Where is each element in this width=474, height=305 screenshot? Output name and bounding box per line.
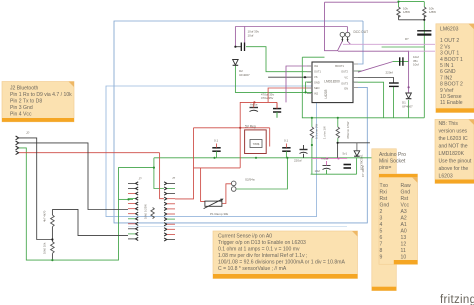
svg-text:1.08 mv per div for Internal R: 1.08 mv per div for Internal Ref of 1.1v…: [218, 253, 307, 259]
svg-text:Pin 3 Gnd: Pin 3 Gnd: [10, 105, 33, 111]
svg-text:220nf: 220nf: [386, 71, 394, 75]
svg-text:SEN: SEN: [314, 86, 319, 90]
svg-text:P1 Ramp 30k: P1 Ramp 30k: [210, 212, 229, 216]
svg-text:VC: VC: [344, 76, 348, 80]
svg-text:LMD18200: LMD18200: [324, 80, 340, 84]
svg-text:10uf: 10uf: [413, 63, 419, 67]
svg-text:8 BOOT 2: 8 BOOT 2: [440, 82, 463, 88]
svg-text:6: 6: [380, 235, 383, 241]
svg-text:2 Vs: 2 Vs: [440, 44, 451, 50]
svg-text:Pin 2 Tx to D8: Pin 2 Tx to D8: [10, 98, 42, 104]
svg-text:470ohm 0.5W: 470ohm 0.5W: [346, 121, 350, 139]
svg-text:4: 4: [380, 222, 383, 228]
svg-text:UF4007: UF4007: [402, 104, 413, 108]
svg-text:GND: GND: [314, 81, 320, 85]
svg-text:S2/54a: S2/54a: [245, 178, 255, 182]
svg-text:100/1.08 = 92.6 divisions per: 100/1.08 = 92.6 divisions per 1000mA or …: [218, 259, 345, 265]
svg-text:2: 2: [380, 209, 383, 215]
svg-text:C = 10.8 * sensorValue ; // m: C = 10.8 * sensorValue ; // mA: [218, 266, 287, 272]
svg-text:L6203: L6203: [324, 89, 328, 98]
svg-text:7 IN2: 7 IN2: [440, 75, 452, 81]
svg-text:Ardue: Ardue: [250, 103, 258, 107]
svg-text:BOOT1: BOOT1: [335, 64, 344, 68]
svg-text:1 ohm 1W: 1 ohm 1W: [323, 126, 327, 139]
svg-text:IN1: IN1: [314, 64, 319, 68]
svg-text:J?: J?: [139, 177, 143, 181]
svg-text:Pin 4 Vcc: Pin 4 Vcc: [10, 111, 32, 117]
svg-text:J2 Bluetooth: J2 Bluetooth: [10, 85, 38, 91]
svg-text:780$: 780$: [253, 142, 260, 146]
svg-text:10uf: 10uf: [248, 34, 254, 38]
svg-text:10uf: 10uf: [315, 169, 321, 173]
svg-text:VS: VS: [314, 75, 318, 79]
svg-text:LM6203: LM6203: [440, 27, 459, 33]
svg-text:0.1 ohm at 1 amps = 0.1 v = 10: 0.1 ohm at 1 amps = 0.1 v = 100 mv: [218, 246, 300, 252]
svg-text:10: 10: [401, 254, 407, 260]
svg-text:0.1 ohm 2W: 0.1 ohm 2W: [315, 124, 319, 139]
svg-text:Vcc: Vcc: [401, 202, 410, 208]
svg-text:10uf 35v: 10uf 35v: [248, 30, 260, 34]
svg-text:the L6203 IC: the L6203 IC: [439, 136, 468, 142]
svg-text:5: 5: [380, 228, 383, 234]
svg-text:5V Reg: 5V Reg: [245, 125, 256, 129]
svg-text:9: 9: [380, 254, 383, 260]
svg-text:A1: A1: [401, 222, 407, 228]
svg-text:OUT2: OUT2: [341, 70, 348, 74]
svg-text:Ardue: Ardue: [321, 157, 329, 161]
svg-text:IN2: IN2: [314, 92, 319, 96]
svg-text:1/8W: 1/8W: [429, 10, 436, 14]
svg-text:Use the pinout: Use the pinout: [439, 158, 472, 164]
svg-text:1 OUT 2: 1 OUT 2: [440, 38, 459, 44]
svg-text:and NOT the: and NOT the: [439, 143, 468, 149]
svg-text:Rst: Rst: [401, 196, 409, 202]
svg-text:0.1: 0.1: [284, 139, 289, 143]
svg-text:3 OUT 1: 3 OUT 1: [440, 51, 459, 57]
svg-text:above for the: above for the: [439, 166, 469, 172]
svg-text:Pin 1 Rx to D9 via 4.7 / 10k: Pin 1 Rx to D9 via 4.7 / 10k: [10, 92, 72, 98]
svg-text:Gnd: Gnd: [401, 189, 411, 195]
svg-text:11: 11: [401, 248, 406, 254]
svg-text:J?: J?: [172, 176, 176, 180]
svg-text:Mini Socket: Mini Socket: [379, 158, 406, 164]
svg-text:fritzing: fritzing: [440, 294, 474, 305]
svg-text:10k0 10k: 10k0 10k: [43, 242, 47, 254]
svg-text:DCC OUT: DCC OUT: [354, 30, 369, 34]
svg-text:EN: EN: [344, 86, 348, 90]
svg-text:Gnd: Gnd: [380, 202, 390, 208]
svg-text:version uses: version uses: [439, 128, 468, 134]
svg-text:Rxi: Rxi: [380, 189, 387, 195]
svg-text:OUT1: OUT1: [314, 70, 321, 74]
svg-text:Trigger o/p on D13 to Enable o: Trigger o/p on D13 to Enable on L6203: [218, 240, 306, 246]
svg-text:UF4007: UF4007: [239, 73, 250, 77]
svg-text:pins=: pins=: [379, 165, 391, 171]
svg-text:7: 7: [380, 241, 383, 247]
svg-text:C7 100nf: C7 100nf: [361, 165, 365, 177]
svg-text:8: 8: [380, 248, 383, 254]
svg-text:9 Vref: 9 Vref: [440, 88, 454, 94]
svg-text:220uf: 220uf: [294, 159, 302, 163]
svg-text:5 IN 1: 5 IN 1: [440, 63, 454, 69]
svg-text:6 GND: 6 GND: [440, 69, 456, 75]
svg-text:13: 13: [401, 235, 407, 241]
svg-text:Txo: Txo: [380, 183, 389, 189]
svg-text:A3: A3: [401, 209, 407, 215]
svg-text:11 Enable: 11 Enable: [440, 100, 463, 106]
svg-text:4k7 4k70: 4k7 4k70: [43, 210, 47, 222]
svg-text:NB: This: NB: This: [439, 121, 459, 127]
svg-text:470u 35v: 470u 35v: [261, 96, 274, 100]
svg-text:R?: R?: [405, 37, 409, 41]
svg-text:10 Sense: 10 Sense: [440, 94, 462, 100]
svg-text:L6203: L6203: [439, 173, 453, 179]
svg-text:Rst: Rst: [380, 196, 388, 202]
svg-text:OUT3: OUT3: [341, 82, 348, 86]
svg-text:A2: A2: [401, 215, 407, 221]
svg-text:10k0 0.25W: 10k0 0.25W: [144, 204, 148, 219]
svg-text:3: 3: [380, 215, 383, 221]
svg-text:4 BOOT 1: 4 BOOT 1: [440, 57, 463, 63]
svg-text:Raw: Raw: [401, 183, 412, 189]
svg-text:Current Sense i/p on A0: Current Sense i/p on A0: [218, 233, 272, 239]
svg-text:1/8W: 1/8W: [403, 10, 410, 14]
svg-text:LMD1820K: LMD1820K: [439, 151, 465, 157]
svg-text:5v1: 5v1: [342, 152, 347, 156]
svg-text:0.1: 0.1: [214, 139, 219, 143]
svg-text:A0: A0: [401, 228, 407, 234]
svg-text:J?: J?: [26, 131, 30, 135]
svg-text:12: 12: [401, 241, 407, 247]
svg-text:Arduino Pro: Arduino Pro: [379, 152, 406, 158]
